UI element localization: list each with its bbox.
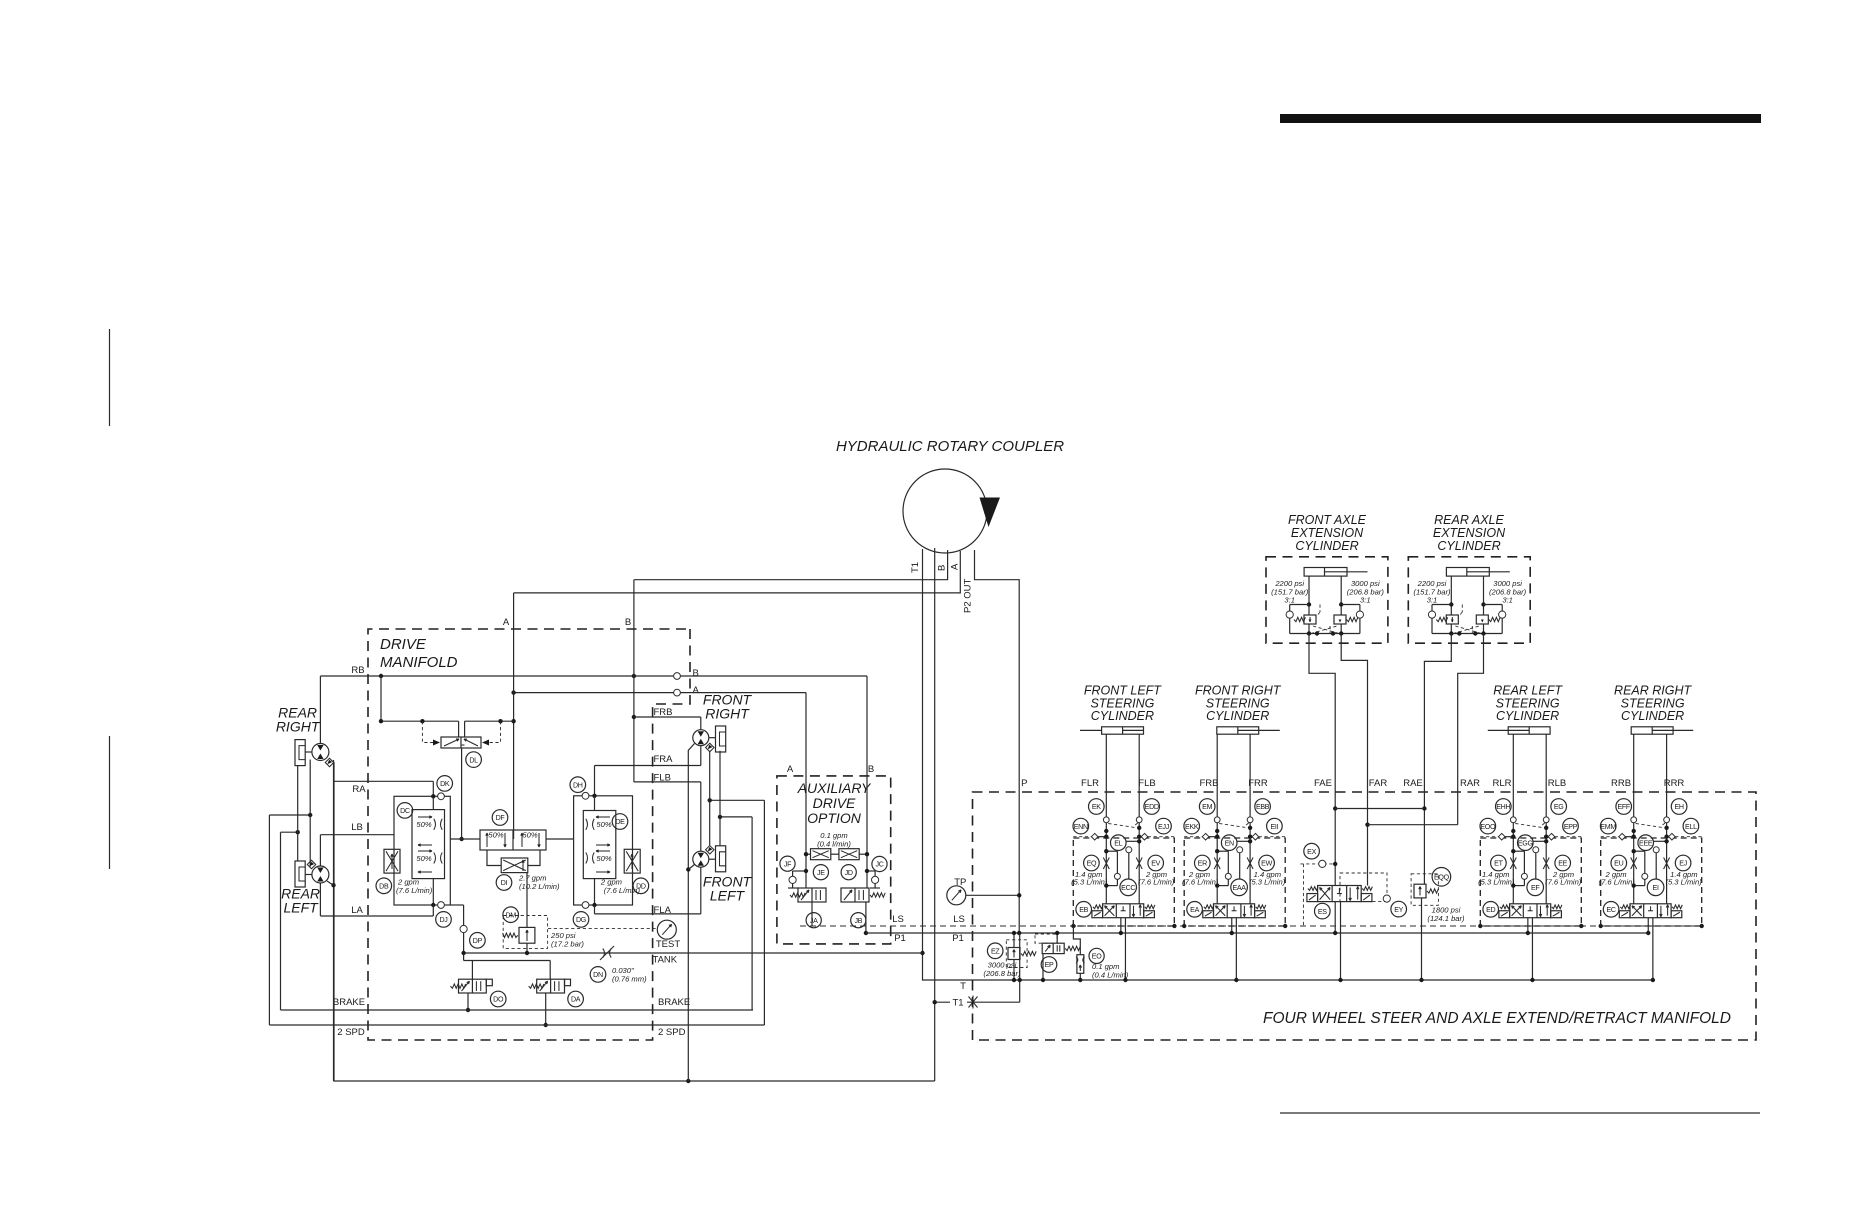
pilot network EL (1126, 840, 1139, 842)
svg-text:(124.1 bar): (124.1 bar) (1427, 914, 1465, 923)
svg-text:EJJ: EJJ (1158, 823, 1170, 831)
cylinder FRONT LEFT STEERING (1102, 727, 1144, 734)
wire rear motors case (309, 760, 311, 867)
svg-text:2 SPD: 2 SPD (658, 1027, 686, 1038)
wire FR case (688, 744, 694, 1082)
wire P1 (866, 932, 1648, 934)
orifice EO (1073, 926, 1080, 955)
wire aux orifice row (806, 853, 811, 855)
svg-text:3:1: 3:1 (1284, 596, 1295, 605)
loop rear flow control (394, 796, 450, 905)
check EFF (1631, 817, 1637, 823)
wire FRA (595, 765, 701, 767)
wire B vertical (633, 580, 635, 782)
orifice DN (603, 949, 605, 958)
speed port FR (706, 743, 714, 751)
gauge TEST (657, 920, 676, 939)
svg-text:DC: DC (400, 807, 410, 815)
wire FLA (595, 913, 701, 915)
valve EQQ relief dashed box (1411, 874, 1438, 906)
brake FRONT RIGHT (716, 726, 726, 752)
wire ES T port (1340, 902, 1342, 980)
speed port FL (706, 846, 714, 854)
coupler port A line (514, 551, 961, 593)
valve JA (798, 888, 826, 902)
svg-text:EMM: EMM (1600, 823, 1616, 831)
label circle EBB (1255, 799, 1271, 815)
label circle DC (397, 803, 413, 819)
pilot diamond left (1202, 833, 1209, 840)
svg-text:CYLINDER: CYLINDER (1621, 709, 1684, 723)
counterbalance valve right (1476, 615, 1488, 624)
svg-text:EM: EM (1202, 803, 1212, 811)
svg-text:3:1: 3:1 (1502, 596, 1513, 605)
svg-text:DL: DL (469, 756, 478, 764)
svg-text:REAR AXLE: REAR AXLE (1434, 513, 1504, 527)
page footer rule (1280, 1112, 1760, 1114)
brake FRONT LEFT (716, 846, 726, 872)
pilot dashed chevron (1636, 824, 1665, 828)
label circle EQ (1084, 855, 1100, 871)
label circle DB (376, 878, 392, 894)
motor FRONT RIGHT (693, 730, 709, 746)
svg-text:FAE: FAE (1314, 778, 1332, 789)
svg-text:DA: DA (571, 996, 581, 1004)
svg-text:LB: LB (351, 822, 363, 833)
gauge TP (947, 886, 966, 905)
wire FR motor to FRA (700, 746, 702, 766)
speed port RR (325, 758, 333, 766)
svg-text:JB: JB (854, 917, 862, 925)
label circle EU (1611, 855, 1627, 871)
svg-text:ECC: ECC (1121, 884, 1135, 892)
svg-text:P: P (1021, 778, 1027, 789)
label circle EH (1671, 799, 1687, 815)
wire 2SPD (269, 1024, 764, 1026)
pilot network EN (1237, 840, 1250, 842)
svg-text:EKK: EKK (1185, 823, 1199, 831)
pilot diamond left (1091, 833, 1098, 840)
svg-text:RIGHT: RIGHT (705, 706, 750, 722)
check EK (1103, 817, 1109, 823)
pilot cross dashed (1455, 626, 1481, 634)
pilot diamond right (1252, 833, 1259, 840)
valve DL (441, 737, 481, 748)
throttle marks ER (1214, 858, 1220, 870)
svg-text:DRIVE: DRIVE (380, 636, 427, 653)
label circle DK (437, 776, 453, 792)
wire port EC right (1666, 734, 1668, 817)
flow control block DE (583, 811, 616, 879)
svg-text:DI: DI (501, 879, 508, 887)
svg-text:JD: JD (845, 869, 853, 877)
valve DL pilot dashed left (422, 721, 433, 742)
svg-text:EJ: EJ (1679, 860, 1687, 868)
svg-text:50%: 50% (522, 831, 537, 840)
svg-text:EE: EE (1558, 860, 1567, 868)
hydraulic rotary coupler symbol (903, 469, 987, 553)
svg-text:DP: DP (473, 937, 483, 945)
valve DO (459, 979, 487, 993)
svg-text:ET: ET (1494, 860, 1503, 868)
wire RB (320, 675, 867, 677)
wire DA to 2spd (545, 993, 547, 1025)
wire DF bypass loop (487, 850, 501, 866)
svg-text:DH: DH (573, 781, 583, 789)
wire T1 to steer manifold (935, 1001, 1020, 1003)
wire FRA drop into DE (594, 766, 596, 796)
svg-text:RLB: RLB (1548, 778, 1566, 789)
cylinder REAR LEFT STEERING (1508, 727, 1550, 734)
pilot network EEE (1653, 840, 1666, 842)
throttle marks ET (1510, 858, 1516, 870)
wire JB to P1 (865, 902, 867, 933)
check valve left (1432, 604, 1451, 606)
svg-text:EW: EW (1261, 860, 1272, 868)
svg-text:(5.3 L/min): (5.3 L/min) (1249, 878, 1286, 887)
svg-text:EK: EK (1092, 803, 1101, 811)
wire ES P port (1334, 902, 1336, 933)
svg-text:(7.6 L/min): (7.6 L/min) (396, 886, 433, 895)
wire rear ext left to RAE (1424, 634, 1451, 793)
pilot dashed chevron (1219, 824, 1248, 828)
wire RB to RR motor (319, 676, 321, 744)
wire RB to DL riser (380, 676, 382, 721)
check valve EX (1300, 863, 1334, 865)
label circle ES (1315, 903, 1331, 919)
valve DI orifice (501, 858, 528, 873)
wire TP to P (966, 894, 1019, 896)
svg-text:P2 OUT: P2 OUT (963, 578, 974, 613)
svg-text:(7.6 L/min): (7.6 L/min) (1545, 878, 1582, 887)
svg-text:EU: EU (1614, 860, 1623, 868)
svg-text:EPP: EPP (1564, 823, 1578, 831)
label circle JE (813, 865, 828, 880)
svg-text:EH: EH (1674, 803, 1683, 811)
wire port EB left (1105, 734, 1107, 817)
svg-text:LEFT: LEFT (283, 900, 319, 916)
throttle marks EU (1631, 858, 1637, 870)
svg-text:RB: RB (351, 665, 364, 676)
wire RAR in manifold (1457, 792, 1459, 825)
valve DF flow divider (480, 830, 546, 850)
svg-text:ENN: ENN (1074, 823, 1088, 831)
pilot diamond left (1498, 833, 1505, 840)
wire rear brake rects (297, 766, 299, 862)
wire EC P port (1647, 918, 1649, 933)
wire BRAKE (281, 1009, 753, 1011)
check EG (1543, 817, 1549, 823)
label circle EFF (1616, 799, 1632, 815)
pilot dashed chevron (1108, 824, 1137, 828)
wire EQQ to T (1421, 898, 1423, 980)
label circle EI (1647, 879, 1664, 896)
svg-text:BRAKE: BRAKE (658, 997, 690, 1008)
coupler port T1 line (922, 549, 924, 953)
label circle DL (466, 752, 482, 768)
label circle ET (1491, 855, 1507, 871)
wire 2SPD left riser (268, 815, 270, 1025)
svg-text:TANK: TANK (653, 955, 678, 966)
valve JB (841, 888, 869, 902)
wire FL motor to FLA (700, 867, 702, 914)
port T1 plug star (969, 996, 978, 1009)
wire front ext right to FAR (1341, 634, 1367, 793)
wire DF inlet (513, 830, 515, 839)
svg-text:(0.4 l/min): (0.4 l/min) (817, 840, 851, 849)
check EH (1664, 817, 1670, 823)
svg-text:50%: 50% (416, 854, 431, 863)
svg-text:T: T (960, 981, 966, 992)
wire LA (320, 915, 433, 917)
svg-text:EA: EA (1190, 906, 1199, 914)
label circle EX (1304, 843, 1320, 859)
svg-text:RLR: RLR (1492, 778, 1511, 789)
svg-text:EEE: EEE (1639, 839, 1653, 847)
svg-text:EB: EB (1079, 906, 1088, 914)
wire case drain bottom return (334, 762, 935, 1081)
svg-text:(7.6 L/min): (7.6 L/min) (604, 886, 641, 895)
pilot diamond right (1669, 833, 1676, 840)
label circle EQQ (1432, 868, 1451, 887)
svg-text:JF: JF (784, 860, 792, 868)
pilot diamond left (1619, 833, 1626, 840)
label circle EAA (1231, 879, 1248, 896)
valve DD bypass orifice (624, 849, 640, 873)
left margin tick upper (109, 329, 111, 426)
svg-text:FAR: FAR (1369, 778, 1388, 789)
svg-text:DJ: DJ (439, 916, 448, 924)
wire FRB to FR motor (700, 717, 702, 730)
svg-text:RAR: RAR (1460, 778, 1480, 789)
svg-text:TP: TP (954, 877, 966, 888)
wire DM to tank (526, 943, 528, 953)
svg-text:A: A (787, 764, 794, 775)
svg-text:DE: DE (615, 818, 625, 826)
label circle EC (1603, 902, 1619, 918)
label circle DA (568, 991, 584, 1007)
wire EA T port (1235, 918, 1237, 980)
svg-text:DM: DM (505, 911, 516, 919)
svg-text:EBB: EBB (1256, 803, 1270, 811)
svg-text:FLR: FLR (1081, 778, 1099, 789)
motor REAR LEFT (312, 866, 329, 883)
wire RR motor to RA riser (333, 760, 335, 1081)
check valve port B (674, 673, 681, 680)
svg-text:50%: 50% (596, 854, 611, 863)
speed port RL (307, 860, 315, 868)
svg-text:EQ: EQ (1087, 860, 1097, 868)
svg-text:LA: LA (351, 905, 363, 916)
label circle EDD (1144, 799, 1160, 815)
svg-text:EO: EO (1092, 953, 1102, 961)
wire RA drop into DC (432, 781, 434, 796)
svg-text:EDD: EDD (1145, 803, 1159, 811)
wire ED P port (1527, 918, 1529, 933)
bottom connection (1432, 633, 1502, 635)
svg-text:ER: ER (1198, 860, 1207, 868)
svg-text:CYLINDER: CYLINDER (1091, 709, 1154, 723)
svg-text:LEFT: LEFT (710, 888, 746, 904)
svg-text:A: A (503, 617, 510, 628)
label circle DH (570, 777, 586, 793)
valve ED (1510, 904, 1551, 918)
cylinder FRONT RIGHT STEERING (1217, 727, 1259, 734)
coupler port B line (634, 550, 948, 580)
svg-text:3:1: 3:1 (1360, 596, 1371, 605)
svg-text:EGG: EGG (1518, 839, 1533, 847)
wire EB T port (1124, 918, 1126, 980)
svg-text:A: A (950, 563, 961, 570)
wire flow line right (546, 838, 574, 840)
svg-text:EQQ: EQQ (1434, 874, 1450, 882)
wire DO DA supply (464, 960, 551, 962)
svg-text:(7.6 L/min): (7.6 L/min) (1138, 878, 1175, 887)
svg-text:LS: LS (892, 914, 904, 925)
wire DL supply left (381, 720, 459, 722)
label circle JA (806, 913, 821, 928)
wire EC T port (1652, 918, 1654, 980)
valve EP (1042, 943, 1064, 953)
svg-text:(5.3 L/min): (5.3 L/min) (1478, 878, 1515, 887)
label circle EMM (1600, 818, 1616, 834)
label circle EW (1259, 855, 1275, 871)
coupler port T1b line (934, 548, 936, 1081)
svg-text:ELL: ELL (1685, 823, 1697, 831)
wire LB (320, 834, 394, 836)
svg-text:50%: 50% (596, 820, 611, 829)
svg-text:2 SPD: 2 SPD (337, 1027, 365, 1038)
label circle EG (1551, 799, 1567, 815)
wire A port (514, 692, 806, 694)
wire port EA left (1216, 734, 1218, 817)
valve DA (537, 979, 565, 993)
svg-text:RIGHT: RIGHT (276, 719, 321, 735)
label circle EJ (1675, 855, 1691, 871)
svg-text:EXTENSION: EXTENSION (1291, 526, 1364, 540)
wire aux B vertical (866, 676, 868, 888)
svg-text:3:1: 3:1 (1427, 596, 1438, 605)
auxiliary box dashed outline (777, 776, 891, 944)
wire front speed ports (709, 751, 711, 845)
svg-text:EG: EG (1554, 803, 1564, 811)
wire A vertical (513, 593, 515, 830)
steer section ED dashed box (1480, 838, 1581, 926)
wire FLB to FL motor (700, 782, 702, 852)
wire FAR in manifold (1367, 792, 1369, 886)
valve DB bypass orifice (384, 849, 400, 873)
svg-text:T1: T1 (910, 562, 921, 573)
valve DL pilot dashed right (489, 721, 501, 742)
svg-text:(0.76 mm): (0.76 mm) (612, 975, 647, 984)
svg-text:DB: DB (379, 883, 389, 891)
label circle ELL (1683, 818, 1699, 834)
wire port EB right (1138, 734, 1140, 817)
svg-text:BRAKE: BRAKE (333, 997, 365, 1008)
wire RL motor to LA (319, 883, 321, 916)
svg-text:DK: DK (440, 780, 450, 788)
extension cylinder symbol (1304, 568, 1347, 577)
cylinder REAR RIGHT STEERING (1631, 727, 1673, 734)
svg-text:B: B (937, 565, 948, 571)
label circle DG (573, 912, 589, 928)
svg-text:DF: DF (496, 814, 506, 822)
wire RAE in manifold (1423, 792, 1425, 884)
svg-text:JA: JA (810, 917, 818, 925)
label circle DF (492, 810, 508, 826)
motor FRONT LEFT (693, 851, 709, 867)
svg-text:EX: EX (1307, 848, 1316, 856)
check valve DJ (438, 902, 445, 909)
steer section EC dashed box (1601, 838, 1702, 926)
check valve JC (867, 870, 875, 872)
check EM (1214, 817, 1220, 823)
svg-text:TEST: TEST (656, 939, 680, 950)
wire port EA right (1249, 734, 1251, 817)
label circle EPP (1563, 818, 1579, 834)
wire 2SPD right riser (763, 800, 765, 1025)
wire FL case stub (688, 865, 694, 870)
wire LS dashed (800, 925, 1700, 927)
valve DM relief (519, 927, 535, 943)
svg-text:JE: JE (817, 869, 825, 877)
wire DL supply right (465, 720, 514, 722)
svg-text:B: B (625, 617, 631, 628)
wire DL center ports (458, 721, 460, 737)
label circle DN (590, 967, 606, 983)
wire FRB (634, 716, 701, 718)
label circle JF (780, 856, 795, 871)
wire rear ext right to RAR (1458, 634, 1484, 793)
svg-text:CYLINDER: CYLINDER (1206, 709, 1269, 723)
coupler port P2 OUT line (975, 550, 1020, 933)
svg-text:FRONT AXLE: FRONT AXLE (1288, 513, 1367, 527)
svg-text:50%: 50% (488, 831, 503, 840)
throttle marks EQ (1103, 858, 1109, 870)
label circle DD (633, 878, 649, 894)
wire FLB (634, 781, 701, 783)
check valve EY (1383, 895, 1390, 902)
svg-text:T1: T1 (952, 998, 963, 1009)
pilot cross dashed (1313, 626, 1339, 634)
label T1 (950, 996, 967, 1008)
motor REAR RIGHT (312, 744, 329, 761)
svg-text:FRB: FRB (1200, 778, 1219, 789)
valve EZ relief dashed box (1006, 940, 1027, 968)
svg-text:EI: EI (1653, 884, 1659, 892)
svg-text:EOO: EOO (1480, 823, 1496, 831)
svg-text:DRIVE: DRIVE (813, 795, 856, 811)
pilot diamond right (1141, 833, 1148, 840)
wire DL tank port (461, 748, 463, 839)
svg-text:CYLINDER: CYLINDER (1437, 539, 1500, 553)
svg-text:(7.6 L/min): (7.6 L/min) (1599, 878, 1636, 887)
brake REAR RIGHT (295, 740, 305, 766)
orifice JD (839, 849, 859, 860)
svg-text:(7.6 L/min): (7.6 L/min) (1182, 878, 1219, 887)
svg-text:EHH: EHH (1496, 803, 1510, 811)
label circle EO (1089, 948, 1104, 963)
wire FLA stub (594, 905, 596, 914)
svg-text:B: B (868, 764, 874, 775)
svg-text:HYDRAULIC ROTARY COUPLER: HYDRAULIC ROTARY COUPLER (836, 438, 1064, 455)
label circle DJ (436, 912, 452, 928)
wire DM supply (526, 873, 528, 928)
svg-text:EII: EII (1271, 823, 1279, 831)
counterbalance valve left (1446, 615, 1458, 624)
svg-text:(10.2 L/min): (10.2 L/min) (519, 882, 560, 891)
svg-text:EXTENSION: EXTENSION (1433, 526, 1506, 540)
